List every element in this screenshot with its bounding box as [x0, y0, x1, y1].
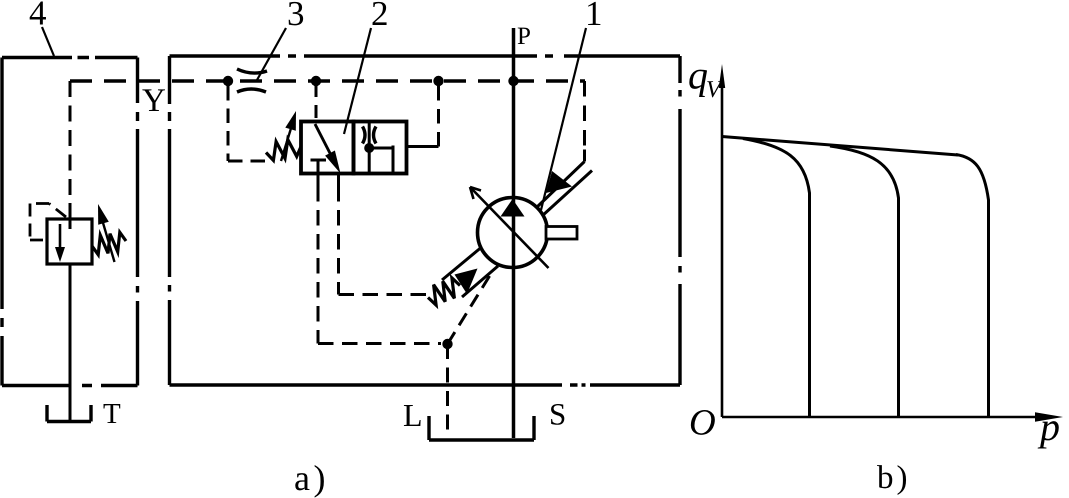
pump upper-right actuator: [537, 150, 592, 217]
valve 2 spring: [266, 140, 301, 161]
valve 2 blocked port T symbol: [311, 160, 327, 181]
control line valve port to pump spring (dashed): [339, 186, 429, 295]
node dot in valve right square: [364, 143, 374, 153]
wire solid inlet into relief valve: [69, 203, 72, 229]
tank symbol (L,S): [429, 416, 534, 440]
control line node to swashplate (dashed diagonal): [448, 272, 493, 344]
node junction dot Y/valve right pilot: [433, 76, 443, 86]
valve 2 right position square: [354, 122, 407, 174]
valve 2 spring side pilot (dashed L): [228, 86, 266, 161]
leader line 3: [257, 28, 286, 80]
valve 2 spring adjust arrow: [281, 111, 296, 161]
valve 2 flow path diagonal arrow: [315, 124, 341, 174]
axis label O: [691, 410, 715, 435]
leader line 4: [42, 27, 54, 56]
port label Y: [142, 89, 165, 111]
pump variable displacement arrow: [470, 187, 549, 268]
node junction dot Y/P line: [508, 76, 518, 86]
pump 1 circle: [478, 198, 548, 268]
pilot line Y horizontal run: [70, 79, 585, 82]
port label P: [518, 28, 530, 44]
graph curve 2: [830, 146, 899, 416]
line P through pump: [512, 28, 516, 438]
valve 2 left position square: [301, 122, 354, 174]
relief valve body (box 4): [47, 219, 92, 264]
valve 2 right square branch to bottom: [369, 146, 393, 174]
pump bias spring: [428, 278, 460, 305]
enclosure main box border: [170, 56, 681, 385]
port label S: [551, 404, 564, 425]
drain line L to tank (dashed): [446, 344, 449, 430]
orifice restrictor 3: [237, 69, 267, 92]
graph curve 3: [956, 155, 989, 417]
relief valve adjust arrow: [98, 204, 115, 262]
graph x axis p: [722, 412, 1063, 422]
wire valve bottom port stubs: [318, 174, 339, 187]
tank T symbol: [47, 405, 91, 422]
graph y axis qV: [719, 64, 725, 417]
wire relief valve outlet to tank T: [69, 264, 72, 421]
valve 2 right pilot vertical (dashed): [437, 84, 440, 147]
caption b): [877, 465, 906, 495]
pump lower-left actuator: [442, 248, 498, 297]
ref label 1: [588, 2, 600, 25]
pump shaft rectangle: [546, 227, 577, 240]
ref label 4: [30, 1, 46, 24]
pilot line Y drop to relief valve in box 4: [69, 81, 72, 203]
valve 2 right square orifice arcs: [363, 127, 377, 144]
node junction dot Y/valve top port: [311, 76, 321, 86]
valve 2 right square vertical path: [368, 122, 371, 174]
pump discharge triangle: [501, 199, 525, 217]
port label T: [104, 404, 121, 423]
relief valve flow arrow: [55, 224, 65, 262]
graph curve 1: [743, 139, 810, 417]
axis label qV: [689, 70, 707, 97]
leader line 1: [541, 28, 586, 210]
valve 2 top port wire from Y: [315, 84, 318, 121]
relief valve pilot sense line (dashed): [30, 204, 66, 241]
port label L: [404, 405, 421, 426]
enclosure box 4 border: [2, 58, 138, 386]
caption a): [295, 465, 324, 498]
ref label 2: [373, 2, 387, 25]
node junction dot L-drain: [442, 339, 452, 349]
control line valve port to node (dashed): [318, 186, 441, 344]
valve 2 right pilot stub: [407, 145, 439, 148]
axis label p: [1038, 421, 1059, 448]
ref label 3: [289, 2, 303, 26]
graph top envelope line: [722, 137, 958, 156]
pilot line Y drop to pump actuator: [583, 81, 586, 150]
relief valve spring: [92, 232, 126, 254]
leader line 2: [344, 28, 371, 134]
node junction dot Y/spring-pilot: [223, 76, 233, 86]
